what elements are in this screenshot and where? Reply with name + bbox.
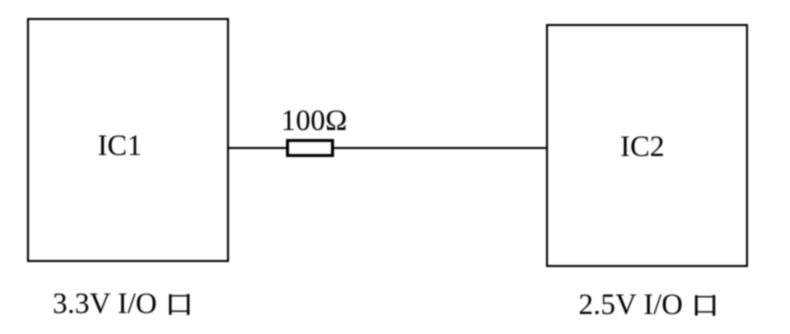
IC2 label <box>620 133 664 163</box>
resistor R1 <box>286 139 334 157</box>
wire IC1 to resistor <box>229 147 287 149</box>
label 2.5V I/O <box>579 291 683 321</box>
label 3.3V I/O <box>53 290 157 320</box>
CJK kou glyph (port) right <box>695 295 716 316</box>
IC1 box <box>27 18 229 262</box>
CJK kou glyph (port) left <box>169 294 190 316</box>
resistor value 100Ω <box>281 107 347 137</box>
IC1 label <box>98 132 142 162</box>
IC2 box <box>546 24 748 267</box>
wire resistor to IC2 <box>334 147 546 149</box>
